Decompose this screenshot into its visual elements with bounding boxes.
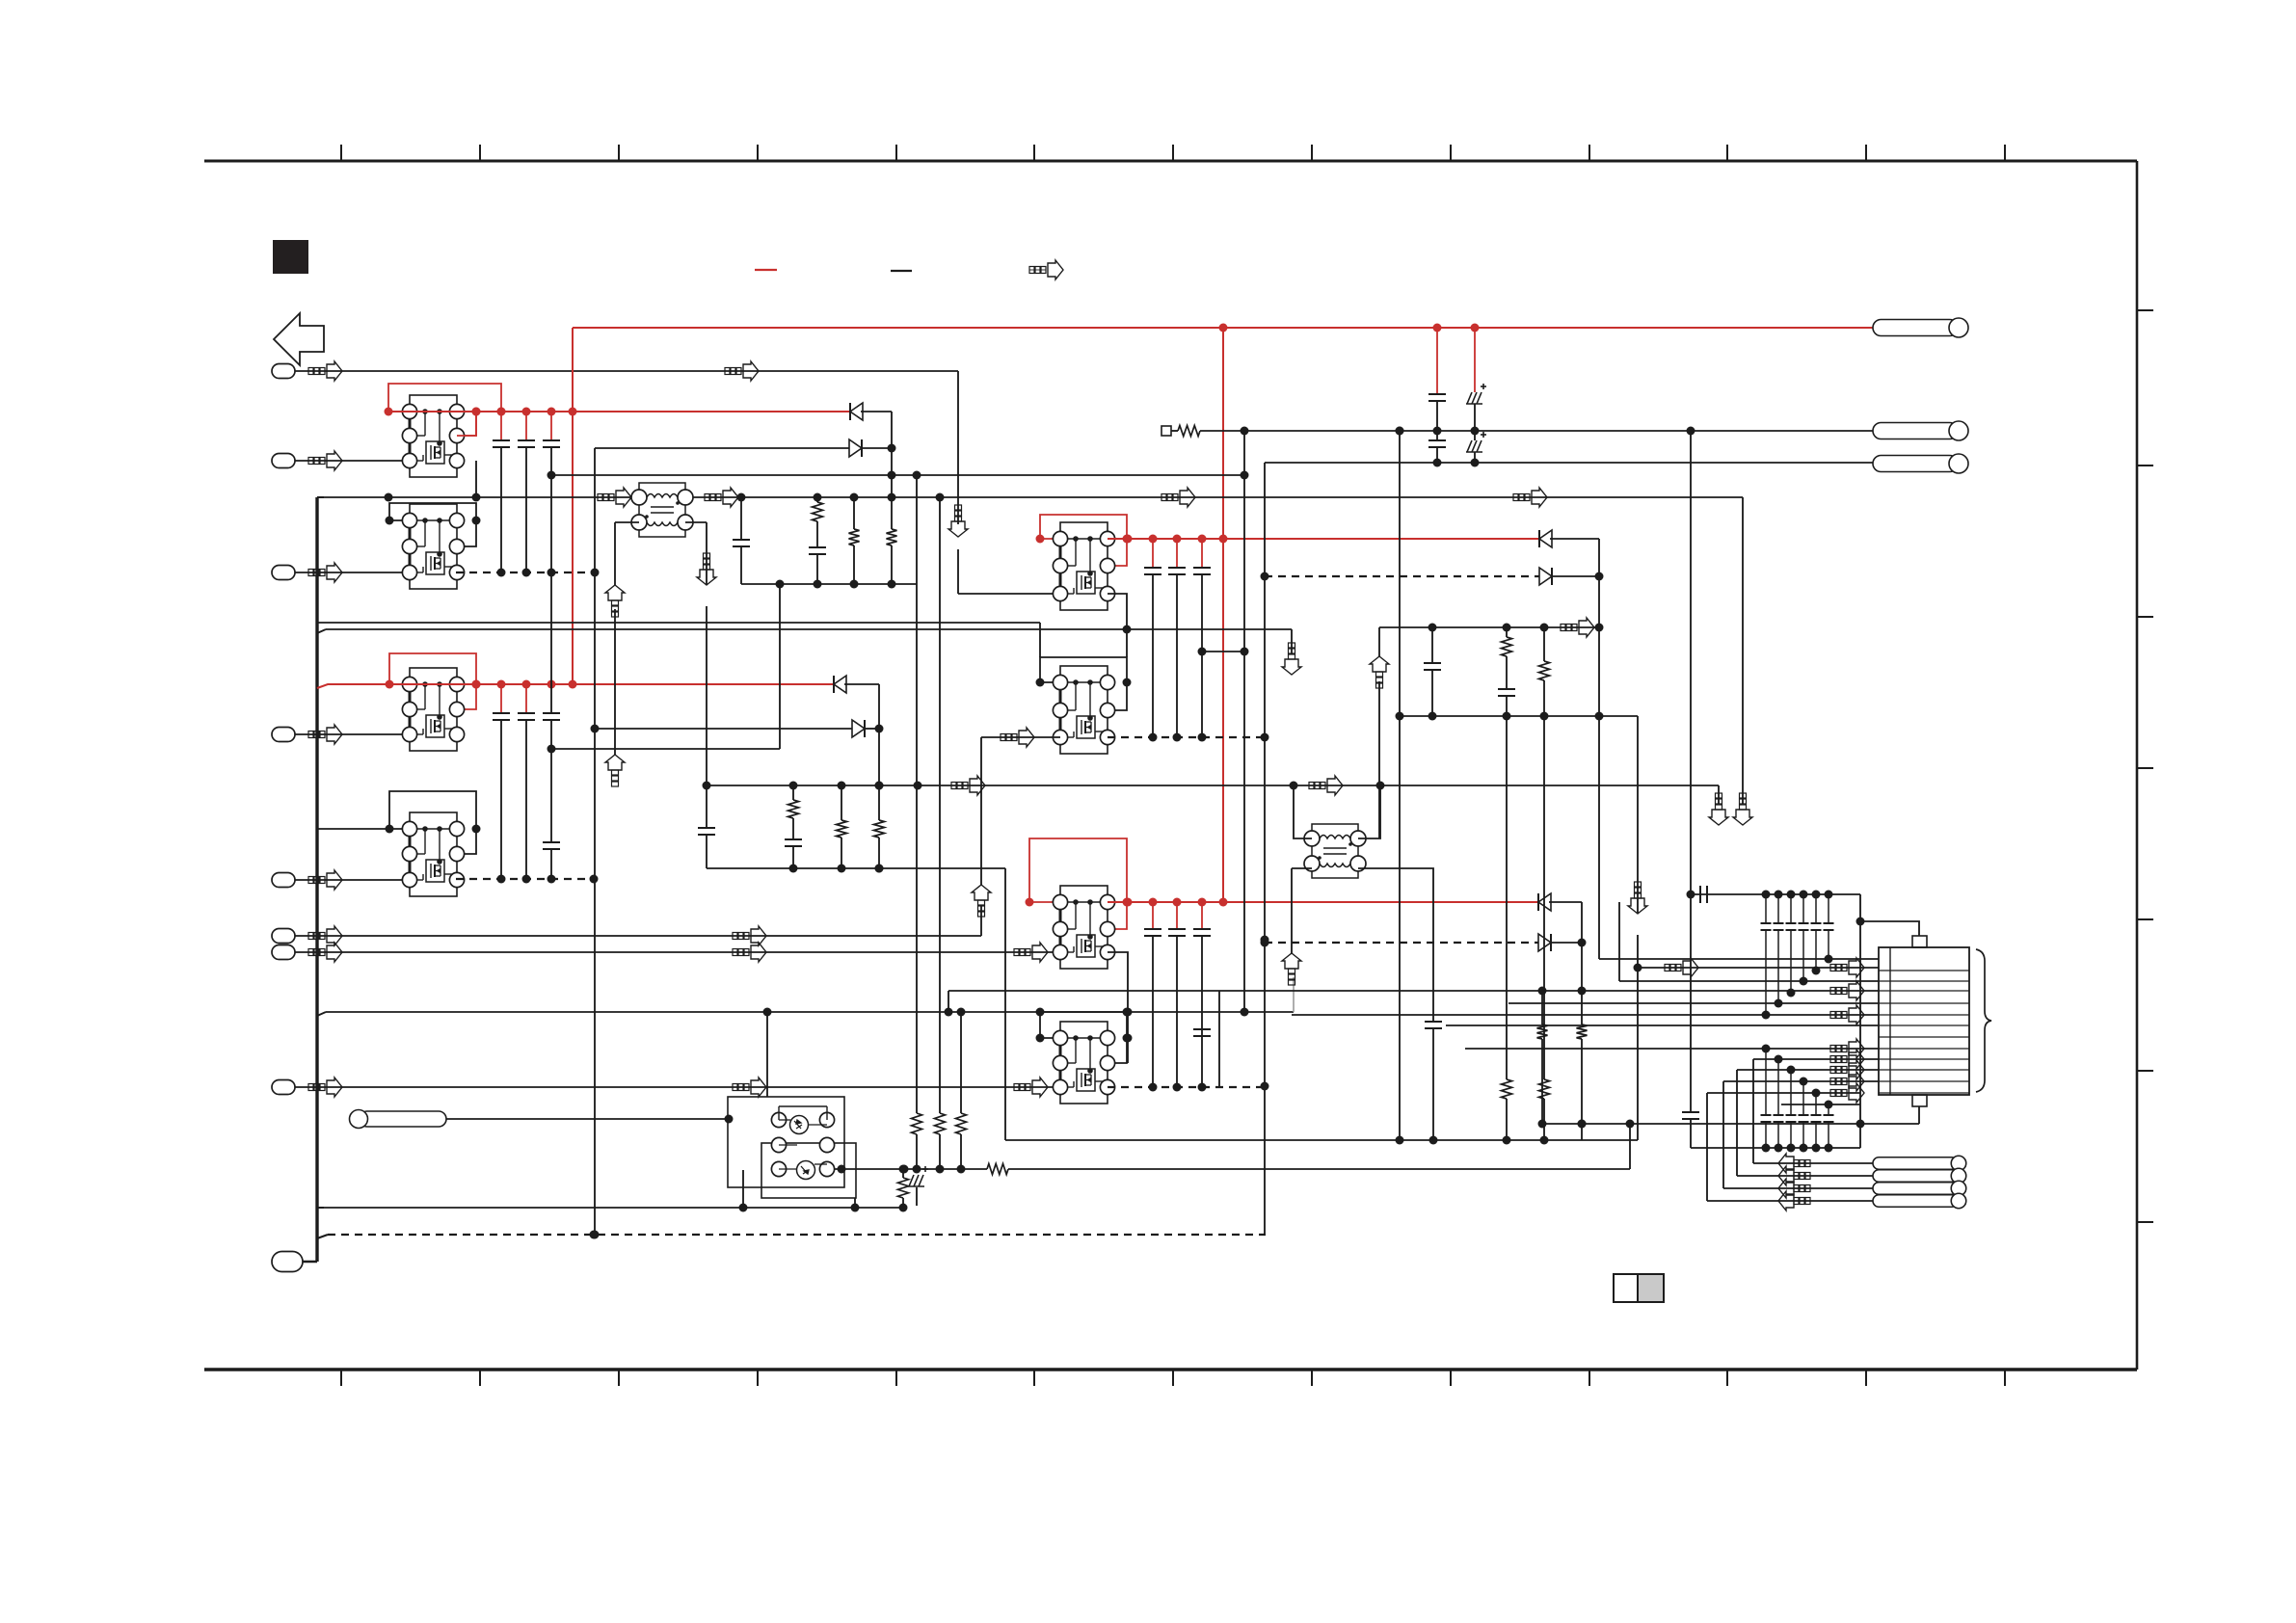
transistor pair Q8 [1036, 1012, 1132, 1104]
pipe JB1 [1873, 1157, 1958, 1170]
net row L1 y995 [1599, 958, 1879, 960]
legend red wire sample [755, 269, 777, 271]
wire JL1 to PC1 [446, 1118, 729, 1120]
connector pad P6 [272, 929, 295, 944]
filter rail y901 [707, 867, 1005, 869]
transistor pair Q7 [1026, 838, 1132, 969]
upper cap bank bus y928 [1691, 893, 1860, 895]
vertical x997 [960, 1012, 962, 1113]
connector CN1 top tab [1912, 936, 1927, 947]
dashed net A y594 [456, 572, 595, 573]
page-link arrow [274, 313, 324, 365]
capacitor C7-x1221 [1176, 902, 1178, 929]
rail y743 [1400, 715, 1638, 717]
vertical x1291 [1243, 431, 1245, 1012]
connector pad P1 [272, 364, 295, 379]
net y480 [1265, 462, 1873, 464]
net row L9 y1088 [1465, 1048, 1879, 1050]
capacitor C-x520 top [500, 412, 502, 440]
connector pad P2 [272, 454, 295, 468]
capacitor C-x546 top [525, 412, 527, 440]
net vertical x994 [957, 371, 959, 524]
cap x572 lower section [550, 572, 552, 713]
connector pad P4 [272, 728, 295, 742]
PC1 stubs [779, 1105, 827, 1107]
drop x809 to y777 [779, 584, 781, 749]
capacitor C7-x1247 [1201, 902, 1203, 929]
res R-x937 [902, 1169, 904, 1178]
link Q5-Q6 x1169 [1108, 594, 1127, 657]
diode D4 line y756 [595, 728, 852, 730]
diode D5 [1539, 530, 1552, 547]
bank cap CB-x1871 [1802, 894, 1804, 923]
bank cap CBL-x1858 [1790, 1070, 1792, 1115]
dashed net F y1127 [1108, 1086, 1265, 1088]
frame right border [2136, 161, 2139, 1370]
connector brace [1976, 949, 1991, 1092]
net y447 [1171, 430, 1178, 432]
main ground bus [315, 497, 318, 1262]
filter cap C-x769 [740, 497, 742, 540]
net y653 [317, 629, 326, 633]
connector pad P8 [272, 1080, 295, 1095]
photocoupler PC1 outer [728, 1097, 844, 1187]
net y1050 [317, 1012, 326, 1016]
net row L13 y1134 [1707, 1092, 1860, 1094]
transistor pair Q4 [386, 791, 481, 896]
PC1 pins [771, 1112, 786, 1127]
pipe J1 [1873, 320, 1958, 336]
x1431 drop [1378, 627, 1380, 656]
pipe J3 [1873, 456, 1958, 472]
resistor R-x1641 [1577, 1024, 1588, 1039]
filter bottom rail y606 [741, 583, 917, 585]
capacitor C3-x546 [525, 684, 527, 713]
transformer T1 [631, 483, 693, 537]
capacitor C-x572 top [550, 412, 552, 440]
diode D7 [1538, 893, 1551, 911]
x1808 drop w arrow [1742, 497, 1744, 804]
net y646 [317, 622, 1040, 624]
title block square [273, 240, 308, 274]
vertical x951 [916, 475, 918, 1113]
connector pad P7 [272, 945, 295, 960]
snubber res R-x1563 [1506, 627, 1508, 637]
connector pad P5 [272, 873, 295, 888]
legend net arrow sample [1029, 260, 1063, 279]
connector CN1 bottom tab [1912, 1095, 1927, 1106]
T2 drop x1340 w arrow [1291, 868, 1293, 953]
red rail Q7 y936 [1108, 901, 1538, 903]
filter res R-x925 [891, 497, 893, 529]
legend black wire sample [891, 270, 912, 272]
legend color boxes [1614, 1274, 1664, 1302]
net row L11 y1110 [1737, 1069, 1879, 1071]
corner x1043 down to y1183 [1004, 868, 1006, 1140]
diode D2 line y465 [595, 447, 849, 449]
vertical x1930 [1859, 894, 1861, 1148]
vertical x1452 [1399, 431, 1401, 1140]
x796 link [766, 1012, 768, 1097]
PC1 drops [742, 1170, 744, 1208]
net wire row y913 [295, 879, 410, 881]
polar cap C-x1530 upper [1474, 328, 1476, 392]
wire pipe y1233 [1723, 1187, 1873, 1189]
bank cap CB-x1884 [1815, 894, 1817, 923]
capacitor C-x1487 low [1425, 1021, 1442, 1023]
vertical x1312 [1264, 463, 1266, 1235]
test point TP1 [1161, 426, 1171, 436]
vertical x975 [939, 497, 941, 1113]
Q6 feed y765 [981, 736, 1060, 738]
net y516 [317, 496, 324, 498]
second stage res R-x1563b [1506, 716, 1508, 1079]
pipe JL1 (bottom-left) [360, 1111, 446, 1127]
dashed return y598 [1265, 575, 1539, 577]
red drop to mid pin Q1 [457, 412, 476, 436]
pipe JB2 [1873, 1170, 1958, 1183]
net row L2 y1004-1007 [1638, 967, 1879, 969]
Q4 feed wire [317, 828, 389, 830]
net row L6 y1053 [1292, 1014, 1879, 1016]
net wire row y988 [295, 951, 1060, 953]
red vertical x594 [572, 328, 574, 684]
dashed net C y765 [1108, 736, 1265, 738]
capacitor C-x1247b [1193, 1028, 1211, 1030]
short link y676 [1202, 651, 1244, 652]
lower cap bank bus y1191 [1691, 1147, 1860, 1149]
net row L7 y1064 [1446, 1024, 1879, 1026]
photocoupler PC1 inner [761, 1143, 856, 1198]
net row L3 y1018 [1619, 980, 1879, 982]
net wire row y762 [295, 733, 410, 735]
pipe J2 [1873, 423, 1958, 439]
vertical x1754 [1690, 431, 1692, 1112]
filter res R-x823 [792, 785, 794, 800]
diode D1 [850, 403, 863, 420]
net wire row y971 [295, 935, 981, 937]
net wire row y1128 [295, 1086, 1060, 1088]
net row L4 y1028 [948, 990, 1879, 992]
frame top border [204, 160, 2137, 163]
cap C-x1491 upper [1436, 328, 1438, 394]
vertical x1265 [1218, 991, 1220, 1086]
red rail nodes y710 [472, 680, 577, 689]
PC1 transistor B [797, 1161, 815, 1180]
frame top ticks [341, 145, 2005, 161]
pipe JB4 [1873, 1195, 1958, 1208]
PC1 transistor A [790, 1116, 809, 1134]
bank cap CBL-x1832 [1765, 1049, 1767, 1115]
cap columns to dashed A [497, 569, 556, 577]
frame bottom ticks [341, 1370, 2005, 1386]
red vertical x1269 [1222, 328, 1224, 902]
net row L10 y1099 [1753, 1058, 1879, 1060]
net y815 [707, 785, 1719, 786]
transistor pair Q2 [386, 503, 481, 589]
bank cap CBL-x1897 [1828, 1104, 1829, 1115]
wire pipe y1246 [1707, 1200, 1873, 1202]
snubber res R-x1602 [1543, 627, 1545, 661]
bank cap CBL-x1884 [1815, 1093, 1817, 1115]
red rail Q3 y710 [317, 684, 389, 688]
net wire row y385 [295, 370, 958, 372]
net row L5 y1041 [1508, 1002, 1879, 1004]
red rail Q5 y559 [1108, 538, 1539, 540]
capacitor C5-x1221 [1176, 539, 1178, 568]
vertical x1600 [1541, 991, 1543, 1024]
filter res R-x848 [816, 497, 818, 502]
vertical x1641 [1581, 902, 1583, 1024]
bank cap CB-x1832 [1765, 894, 1767, 923]
filter cap C-x733 [706, 785, 707, 828]
filter res R-x873 [841, 785, 842, 820]
net row L12 y1122 [1723, 1080, 1879, 1082]
net y493 [551, 474, 1244, 476]
red rail Q1 y427 [388, 411, 850, 412]
polar cap C-x1530 lower [1474, 431, 1476, 440]
transistor pair Q3 [386, 653, 481, 751]
net y1166 tab return [1542, 1123, 1919, 1125]
vertical x1659 [1598, 539, 1600, 959]
bank cap CBL-x1845 [1777, 1059, 1779, 1115]
bank cap CB-x1845 [1777, 894, 1779, 923]
diode D3 [834, 676, 846, 693]
net y1253 [317, 1207, 324, 1209]
vertical x912 [878, 684, 880, 820]
rail y651 right [1379, 626, 1599, 628]
capacitor C3-x520 [500, 684, 502, 713]
connector pad P9 [272, 1252, 303, 1272]
capacitor C5-x1196 [1152, 539, 1154, 568]
pipe JB3 [1873, 1183, 1958, 1195]
filter res R-x886 [853, 497, 855, 529]
transistor pair Q6 [1036, 657, 1132, 754]
transistor pair Q5 [1036, 515, 1132, 610]
connector CN1 body [1879, 947, 1969, 1095]
red supply top bus [573, 327, 1873, 329]
wire pipe y1220 [1737, 1175, 1873, 1177]
vertical x1691 [1629, 1124, 1631, 1169]
cap C-x1491 lower [1436, 431, 1438, 440]
dashed net D y912 [456, 878, 594, 880]
net wire row y478 [295, 460, 410, 462]
transistor pair Q1 [385, 384, 506, 477]
row y1146 [1781, 1104, 1860, 1105]
bank cap CBL-x1871 [1802, 1081, 1804, 1115]
transformer T2 [1304, 824, 1366, 878]
PC1 output y1213 [835, 1168, 987, 1170]
x1699 drop [1637, 716, 1639, 914]
x1783 drop w arrow [1718, 785, 1720, 804]
frame right ticks [2137, 310, 2153, 1222]
link Q7-Q8 x1170 [1108, 952, 1128, 1063]
second stage res R-x1602b [1543, 716, 1545, 1079]
resistor R-x912 [874, 820, 885, 838]
vertical x925 [891, 412, 893, 497]
net wire row y594 [295, 572, 410, 573]
vertical x617 [594, 448, 596, 1235]
wire pipe y1207 [1753, 1162, 1873, 1164]
capacitor C5-x1247 [1201, 539, 1203, 568]
bank cap CB-x1858 [1790, 894, 1792, 923]
bank cap CB-x1897 [1828, 894, 1829, 923]
capacitor C7-x1196 [1152, 902, 1154, 929]
rail y1183 [1005, 1139, 1638, 1141]
frame bottom border [204, 1368, 2137, 1371]
dashed net G y1281 [317, 1235, 328, 1238]
dashed return y978 [1265, 942, 1538, 944]
red rail nodes y427 [472, 408, 577, 416]
connector pad P3 [272, 566, 295, 580]
red bus nodes top [1219, 324, 1480, 333]
snubber cap C-x1486 [1431, 627, 1433, 663]
resistor R-TP [1178, 426, 1200, 437]
T1 secondary drops [615, 521, 639, 523]
wire P9 to bus [303, 1261, 317, 1264]
polar cap C-x953 [908, 1166, 928, 1186]
